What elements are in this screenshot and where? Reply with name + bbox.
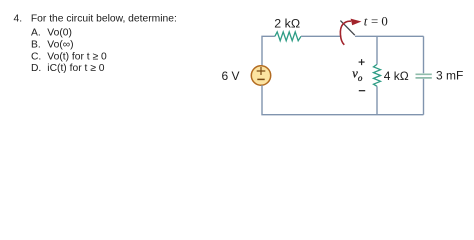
svg-text:iC(t) for t ≥ 0: iC(t) for t ≥ 0	[47, 63, 104, 74]
switch arc arrowhead	[351, 19, 362, 26]
label 3 mF	[436, 69, 463, 83]
wire resistor to switch	[301, 35, 342, 37]
label vo	[352, 67, 363, 83]
label 4 kohm	[384, 69, 409, 83]
wire source bottom to bottom rail	[262, 85, 424, 115]
item C label	[31, 51, 107, 62]
svg-text:6 V: 6 V	[222, 69, 240, 83]
item B label	[31, 39, 74, 50]
svg-text:Vo(0): Vo(0)	[47, 27, 72, 38]
wire switch to top-right corner	[355, 35, 424, 37]
svg-text:For the circuit below, determi: For the circuit below, determine:	[31, 14, 177, 25]
wire right branch bottom	[423, 79, 425, 115]
svg-text:Vo(t) for t ≥ 0: Vo(t) for t ≥ 0	[47, 51, 107, 62]
svg-text:B.: B.	[31, 39, 41, 50]
item D label	[31, 63, 105, 74]
problem statement line 1	[14, 14, 177, 25]
resistor 2 kohm	[275, 32, 301, 41]
label 2 kohm	[274, 17, 300, 31]
wire middle branch bottom	[376, 86, 378, 114]
svg-text:D.: D.	[31, 63, 41, 74]
wire middle branch top	[376, 36, 378, 64]
svg-text:= 0: = 0	[371, 15, 388, 29]
svg-text:Vo(∞): Vo(∞)	[47, 39, 73, 50]
switch action arc	[340, 21, 351, 45]
svg-text:4 kΩ: 4 kΩ	[384, 69, 409, 83]
label t = 0	[364, 14, 388, 29]
vo minus sign	[359, 90, 365, 92]
item A label	[31, 27, 72, 38]
wire right branch top	[423, 36, 425, 73]
voltage source 6 V	[251, 66, 270, 85]
vo plus sign	[359, 59, 365, 65]
svg-text:3 mF: 3 mF	[436, 69, 463, 83]
resistor 4 kohm	[374, 64, 381, 86]
svg-text:4.: 4.	[14, 14, 23, 25]
switch blade t=0	[340, 21, 354, 36]
label 6 V	[222, 69, 240, 83]
svg-text:t: t	[364, 14, 368, 29]
svg-text:2 kΩ: 2 kΩ	[274, 17, 300, 31]
capacitor 3 mF	[416, 74, 432, 78]
svg-text:C.: C.	[31, 51, 41, 62]
svg-text:A.: A.	[31, 27, 41, 38]
svg-text:o: o	[358, 73, 363, 83]
wire top-left from source to resistor	[262, 36, 275, 66]
